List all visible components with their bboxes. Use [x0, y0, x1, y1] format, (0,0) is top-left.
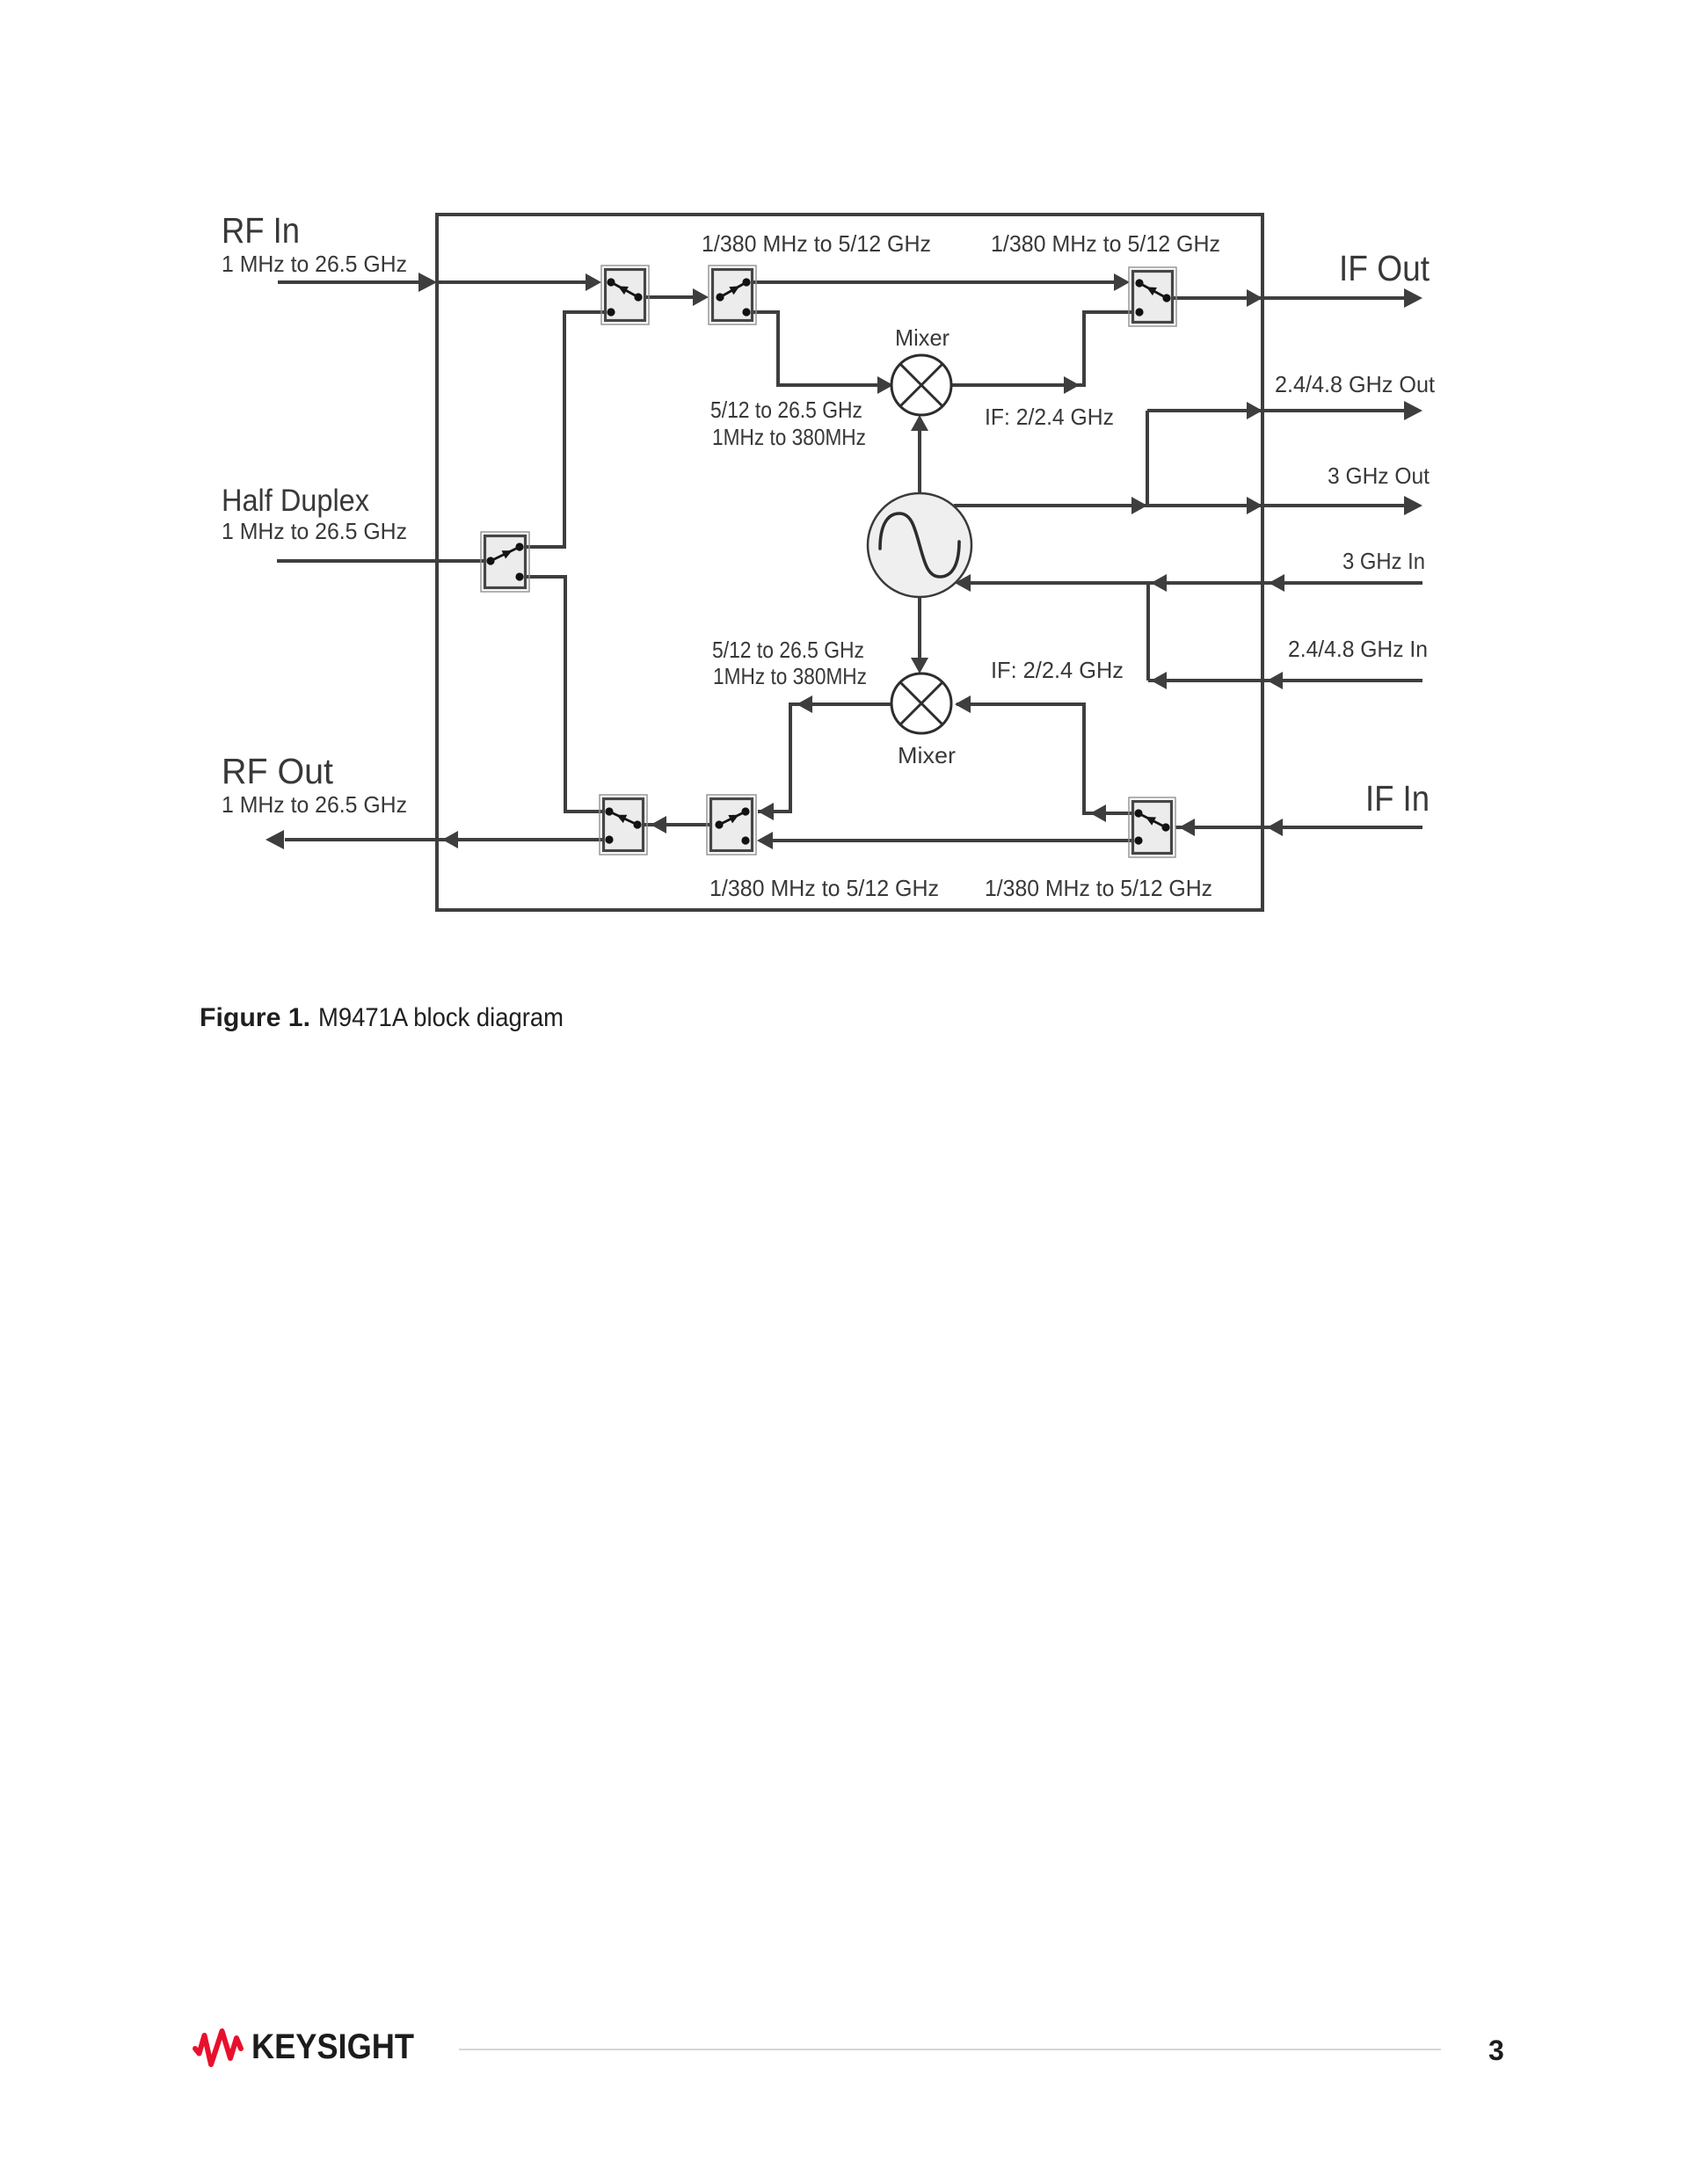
svg-text:Figure 1.: Figure 1. — [200, 1003, 310, 1032]
label RF In — [222, 210, 300, 251]
wire SW4 to SW1 vertical path — [520, 312, 609, 547]
wire Half Duplex input — [277, 559, 491, 563]
label Mixer (bottom) — [898, 742, 956, 768]
wire SW6 to SW5 — [643, 816, 719, 834]
label Mixer (top) — [895, 324, 949, 351]
svg-text:1/380 MHz to 5/12 GHz: 1/380 MHz to 5/12 GHz — [991, 230, 1220, 257]
svg-text:2.4/4.8 GHz In: 2.4/4.8 GHz In — [1288, 636, 1428, 662]
wire RF In internal — [437, 273, 601, 291]
enclosure frame — [437, 215, 1262, 910]
switch SW6 — [707, 795, 756, 855]
label 1/380 MHz to 5/12 GHz (bottom left path) — [709, 875, 939, 901]
label RF In frequency range — [222, 251, 407, 277]
svg-text:2.4/4.8 GHz Out: 2.4/4.8 GHz Out — [1275, 371, 1436, 397]
label 3 GHz Out — [1328, 462, 1430, 489]
wire RF Out external — [266, 830, 437, 849]
wire SW1 to SW2 — [638, 288, 709, 306]
svg-text:1MHz to 380MHz: 1MHz to 380MHz — [713, 663, 867, 689]
mixer M1 (upconvert) — [891, 355, 951, 415]
svg-text:1 MHz to 26.5 GHz: 1 MHz to 26.5 GHz — [222, 251, 407, 277]
svg-text:1/380 MHz to 5/12 GHz: 1/380 MHz to 5/12 GHz — [709, 875, 939, 901]
svg-text:IF: 2/2.4 GHz: IF: 2/2.4 GHz — [985, 404, 1114, 430]
label 2.4/4.8 GHz Out — [1275, 371, 1436, 397]
wire oscillator LO to mixer M2 — [911, 596, 928, 673]
oscillator LO source — [868, 493, 971, 597]
label 1/380 MHz to 5/12 GHz (top right path) — [991, 230, 1220, 257]
svg-text:3 GHz In: 3 GHz In — [1342, 548, 1425, 574]
wire 2.4/4.8 GHz Out — [1147, 401, 1422, 420]
svg-text:1 MHz to 26.5 GHz: 1 MHz to 26.5 GHz — [222, 518, 407, 544]
label 1/380 MHz to 5/12 GHz (bottom right path) — [985, 875, 1212, 901]
label 1MHz to 380MHz (top) — [712, 424, 866, 450]
label RF Out frequency range — [222, 791, 407, 818]
svg-text:Half Duplex: Half Duplex — [222, 484, 369, 518]
label 5/12 to 26.5 GHz (top) — [710, 397, 862, 423]
label Half Duplex frequency range — [222, 518, 407, 544]
label RF Out — [222, 751, 334, 791]
Keysight logo spark — [195, 2031, 241, 2064]
svg-text:1/380 MHz to 5/12 GHz: 1/380 MHz to 5/12 GHz — [985, 875, 1212, 901]
Keysight logo wordmark — [251, 2027, 414, 2066]
label 2.4/4.8 GHz In — [1288, 636, 1428, 662]
label IF In — [1365, 778, 1430, 819]
svg-text:M9471A block diagram: M9471A block diagram — [318, 1003, 564, 1032]
svg-text:1MHz to 380MHz: 1MHz to 380MHz — [712, 424, 866, 450]
switch SW4 — [481, 532, 529, 592]
svg-text:RF Out: RF Out — [222, 751, 334, 791]
label 1/380 MHz to 5/12 GHz (top left path) — [702, 230, 931, 257]
svg-text:IF Out: IF Out — [1339, 248, 1430, 288]
label Half Duplex — [222, 484, 369, 518]
label IF: 2/2.4 GHz (bottom) — [991, 657, 1124, 683]
label 1MHz to 380MHz (bottom) — [713, 663, 867, 689]
wire junction node A vertical — [1146, 411, 1149, 506]
figure caption — [200, 1003, 564, 1032]
svg-text:IF In: IF In — [1365, 778, 1430, 819]
svg-text:Mixer: Mixer — [898, 742, 956, 768]
svg-text:3 GHz Out: 3 GHz Out — [1328, 462, 1430, 489]
wire IF In — [1175, 819, 1422, 836]
wire RF In external — [278, 273, 437, 292]
label IF: 2/2.4 GHz (top) — [985, 404, 1114, 430]
wire junction node B vertical — [1146, 583, 1150, 681]
svg-text:RF In: RF In — [222, 210, 300, 251]
page number — [1488, 2035, 1504, 2066]
wire 2.4/4.8 GHz In — [1148, 672, 1422, 689]
footer rule — [459, 2049, 1441, 2050]
wire mixer M1 IF output to SW3 — [951, 312, 1139, 394]
switch SW5 — [600, 795, 647, 855]
wire 3 GHz In — [955, 574, 1422, 592]
svg-text:3: 3 — [1488, 2035, 1504, 2066]
switch SW7 — [1129, 797, 1175, 857]
wire mixer M2 output to SW6 — [758, 695, 891, 820]
wire SW4 to SW5 vertical path — [520, 577, 608, 812]
label 5/12 to 26.5 GHz (bottom) — [712, 637, 864, 663]
svg-text:IF: 2/2.4 GHz: IF: 2/2.4 GHz — [991, 657, 1124, 683]
wire SW5 to RF Out internal — [437, 831, 609, 848]
wire SW7 to SW6 1/380 MHz path — [757, 832, 1139, 849]
svg-text:5/12 to 26.5 GHz: 5/12 to 26.5 GHz — [710, 397, 862, 423]
svg-text:1/380 MHz to 5/12 GHz: 1/380 MHz to 5/12 GHz — [702, 230, 931, 257]
wire SW7 to mixer M2 IF input — [955, 695, 1139, 822]
wire oscillator output 3 GHz Out — [954, 496, 1422, 515]
wire oscillator LO to mixer M1 — [911, 415, 928, 494]
svg-text:Mixer: Mixer — [895, 324, 949, 351]
wire SW2 to SW3 1/380 MHz path — [746, 273, 1130, 291]
svg-text:5/12 to 26.5 GHz: 5/12 to 26.5 GHz — [712, 637, 864, 663]
label 3 GHz In — [1342, 548, 1425, 574]
svg-text:KEYSIGHT: KEYSIGHT — [251, 2027, 414, 2066]
label IF Out — [1339, 248, 1430, 288]
switch SW1 — [601, 266, 649, 324]
wire SW2 to mixer M1 RF input — [746, 312, 893, 394]
switch SW3 — [1129, 267, 1176, 326]
svg-text:1 MHz to 26.5 GHz: 1 MHz to 26.5 GHz — [222, 791, 407, 818]
mixer M2 (downconvert) — [891, 673, 951, 733]
wire SW3 to IF Out — [1167, 288, 1422, 308]
switch SW2 — [709, 266, 756, 324]
